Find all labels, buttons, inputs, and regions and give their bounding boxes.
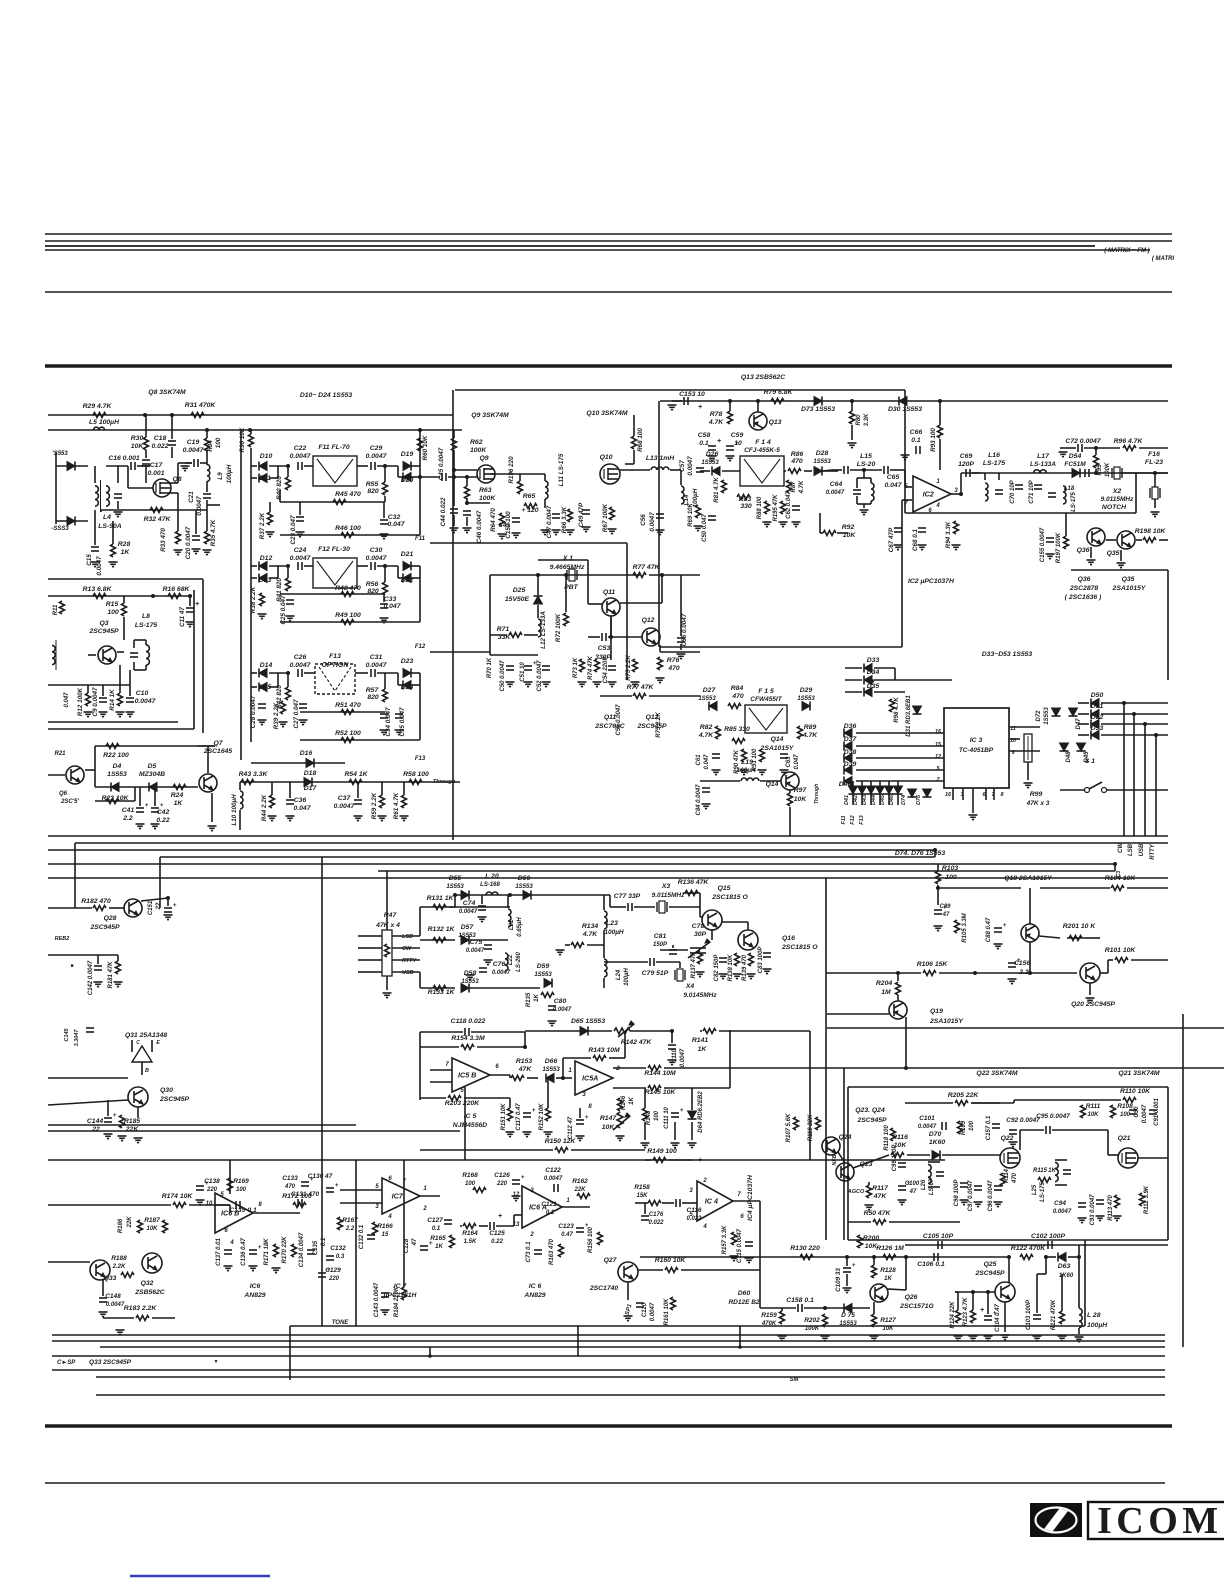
wire [760, 1307, 796, 1309]
capacitor C33 [380, 604, 388, 608]
wire [269, 672, 290, 674]
ground C115 [745, 1258, 754, 1263]
resistor R105 [955, 920, 960, 933]
svg-text:0.1: 0.1 [699, 440, 709, 447]
junction [904, 1255, 908, 1259]
svg-text:L8: L8 [142, 613, 150, 620]
svg-text:F11: F11 [415, 536, 426, 542]
wire [680, 644, 682, 650]
capacitor C79 [650, 958, 654, 966]
wire [604, 961, 648, 963]
wire [537, 605, 539, 618]
ground C112 [576, 1136, 585, 1141]
resistor R82 [716, 726, 721, 739]
ground IC3 [969, 815, 978, 820]
resistor R16 [168, 594, 181, 599]
svg-text:4.7K: 4.7K [708, 419, 724, 426]
svg-text:2SC945P: 2SC945P [159, 1096, 190, 1103]
ground R47 [383, 993, 392, 998]
capacitor C49 [582, 510, 590, 514]
svg-text:470: 470 [731, 693, 744, 700]
capacitor C29 [371, 462, 375, 470]
svg-text:100: 100 [236, 1187, 247, 1193]
wire [680, 470, 682, 485]
transistor Q23 [836, 1163, 854, 1181]
svg-text:R200: R200 [863, 1235, 879, 1242]
svg-text:1S553: 1S553 [542, 1067, 560, 1073]
svg-text:100: 100 [945, 874, 957, 881]
wire [189, 1204, 230, 1206]
svg-text:D26: D26 [706, 451, 719, 458]
wire [622, 1067, 646, 1069]
capacitor L25 tank [1063, 1170, 1071, 1174]
wire Q12 out [660, 651, 700, 653]
bus line 2 [75, 842, 1168, 844]
svg-text:D55: D55 [449, 875, 462, 882]
wire [250, 430, 252, 434]
svg-text:16: 16 [945, 792, 952, 798]
svg-text:+: + [585, 1115, 589, 1121]
svg-text:R72 100K: R72 100K [555, 613, 562, 642]
svg-text:IC5 B: IC5 B [458, 1071, 476, 1080]
wire [961, 472, 980, 474]
wire [861, 794, 863, 805]
resistor R68 [632, 436, 637, 449]
resistor R186 [138, 1220, 143, 1233]
top rule 5 [45, 291, 1172, 293]
svg-text:470: 470 [284, 1184, 296, 1190]
ground R137 [696, 972, 705, 977]
svg-text:C128: C128 [404, 1238, 410, 1253]
wire RTTY tap [392, 959, 420, 961]
wire [993, 788, 995, 800]
op-amp IC6A [522, 1186, 562, 1228]
capacitor C20 [192, 536, 200, 540]
wire [287, 566, 289, 578]
svg-text:2SC1740: 2SC1740 [589, 1285, 619, 1292]
wire [102, 1280, 104, 1296]
wire [420, 1046, 459, 1048]
resistor R114 [1001, 1173, 1006, 1186]
svg-text:D23: D23 [401, 658, 414, 665]
junction [660, 573, 664, 577]
svg-text:+: + [195, 601, 199, 608]
capacitor C65 [884, 466, 888, 474]
ground C23 [296, 532, 305, 537]
svg-text:1K: 1K [121, 549, 131, 556]
resistor R170 [292, 1244, 297, 1257]
resistor R92 [823, 531, 836, 536]
svg-text:C55 0.0047: C55 0.0047 [616, 704, 622, 736]
ground C110 [668, 1060, 677, 1065]
capacitor C136 [249, 1245, 262, 1254]
svg-text:R204: R204 [876, 980, 892, 987]
svg-text:LS-90A: LS-90A [98, 523, 122, 530]
svg-text:C176: C176 [649, 1212, 664, 1218]
wire [603, 978, 605, 988]
resistor R201 [1069, 936, 1082, 941]
svg-text:15K: 15K [636, 1193, 648, 1199]
svg-text:820: 820 [367, 488, 379, 495]
wire [141, 898, 168, 901]
wire [509, 1098, 511, 1108]
wire to Q19 base [827, 1013, 889, 1015]
svg-text:100µH: 100µH [226, 464, 233, 483]
svg-text:Q12: Q12 [642, 617, 655, 624]
wire right edge vertical [1182, 1014, 1184, 1347]
svg-text:0.0047: 0.0047 [106, 1302, 125, 1308]
resistor R139 [749, 953, 754, 966]
svg-text:R80: R80 [856, 414, 862, 426]
svg-text:LS-175: LS-175 [1040, 1182, 1046, 1202]
ground C148 [99, 1312, 108, 1317]
wire [509, 1075, 511, 1078]
svg-text:Q11: Q11 [603, 589, 616, 596]
filter F16 FL-23 [1150, 487, 1160, 499]
svg-text:15: 15 [935, 742, 942, 748]
svg-text:R39 2.2K: R39 2.2K [273, 702, 280, 729]
wire [819, 513, 821, 533]
wire [610, 616, 612, 660]
svg-text:C84 0.0047: C84 0.0047 [696, 784, 702, 816]
svg-text:R150 12K: R150 12K [545, 1138, 577, 1145]
svg-text:R60 10K: R60 10K [422, 435, 429, 460]
wire [897, 973, 899, 981]
resistor R171 [274, 1244, 279, 1257]
wire Q18 emitter down [1029, 942, 1031, 973]
svg-text:+: + [1003, 923, 1007, 929]
diode D37 [844, 742, 852, 751]
svg-text:R57: R57 [366, 687, 380, 694]
resistor R200 [858, 1235, 863, 1248]
svg-text:C37: C37 [338, 795, 352, 802]
wire [1061, 1274, 1063, 1311]
svg-text:R124 22K: R124 22K [950, 1301, 956, 1329]
diode D74 [908, 789, 917, 797]
trimmer C78 [688, 939, 710, 958]
svg-text:0.0047: 0.0047 [135, 698, 157, 705]
diode D11 [259, 474, 267, 483]
ICOM logo mark [1030, 1503, 1082, 1537]
wire X1 row [490, 574, 640, 576]
resistor R95 [1094, 455, 1099, 468]
svg-text:C74: C74 [463, 900, 476, 907]
wire [477, 1046, 525, 1048]
ground C19 [181, 466, 190, 471]
wire bus drop b [159, 857, 161, 908]
wire [460, 1225, 462, 1227]
svg-text:0.0047: 0.0047 [1053, 1209, 1072, 1215]
capacitor C132 [326, 1256, 334, 1260]
wire [1078, 734, 1089, 736]
svg-text:4.7K: 4.7K [698, 732, 714, 739]
wire [888, 794, 890, 805]
wire [972, 1292, 974, 1310]
svg-text:Q8 3SK74M: Q8 3SK74M [148, 389, 186, 396]
wire [314, 762, 345, 764]
wire [890, 469, 905, 471]
svg-text:0.3: 0.3 [336, 1254, 345, 1260]
svg-text:0.0047: 0.0047 [918, 1124, 937, 1130]
svg-text:X3: X3 [661, 883, 671, 890]
diode D12 [259, 562, 267, 571]
wire [397, 566, 399, 578]
wire left edge vertical [55, 452, 57, 524]
audio box top [356, 1159, 945, 1161]
op-amp IC2 µPC1037H [913, 476, 951, 512]
diode D4 [111, 783, 119, 792]
svg-text:R31 470K: R31 470K [185, 402, 217, 409]
capacitor C101 [942, 1122, 946, 1130]
diode D14 [259, 669, 267, 678]
capacitor C17 [142, 460, 150, 464]
ground C83 [763, 969, 772, 974]
wire [251, 465, 257, 467]
svg-text:R160 10K: R160 10K [655, 1257, 687, 1264]
wire [269, 465, 290, 467]
svg-text:10: 10 [206, 1201, 213, 1207]
ground R73 [578, 682, 587, 687]
capacitor C134 [307, 1250, 315, 1254]
wire [340, 1189, 382, 1191]
svg-text:LS-260: LS-260 [516, 952, 522, 972]
bottom rail 1 [52, 1334, 1165, 1336]
svg-text:D50: D50 [1091, 692, 1104, 699]
resistor network R47 47Kx4 [382, 930, 392, 976]
svg-text:C►SP: C►SP [57, 1360, 76, 1366]
svg-text:Q25: Q25 [984, 1261, 997, 1268]
audio box right [1084, 1240, 1086, 1326]
resistor R141b [703, 1029, 716, 1034]
svg-text:47K x 3: 47K x 3 [1026, 800, 1050, 807]
svg-text:R188: R188 [111, 1255, 127, 1262]
transistor Q31 [132, 1040, 152, 1075]
ground R202 [821, 1336, 830, 1341]
svg-text:R187: R187 [144, 1217, 160, 1224]
wire [251, 577, 257, 579]
ground R76 [656, 678, 665, 683]
svg-text:Q7: Q7 [213, 740, 223, 747]
wire [139, 787, 141, 806]
svg-text:220: 220 [328, 1276, 340, 1282]
resistor R79 [771, 399, 784, 404]
svg-text:4: 4 [935, 503, 940, 509]
ground C15 [91, 562, 100, 567]
capacitor C112 [576, 1115, 589, 1124]
ground C52 [542, 682, 551, 687]
svg-text:C33: C33 [384, 596, 397, 603]
capacitor C82 [719, 958, 727, 962]
wire [856, 745, 944, 747]
svg-text:+: + [498, 1213, 502, 1220]
wire [729, 1030, 731, 1088]
ground C88 [994, 944, 1003, 949]
capacitor C67 [894, 528, 902, 532]
capacitor C88 [994, 923, 1007, 932]
capacitor C68 [918, 528, 926, 532]
svg-text:820: 820 [367, 694, 379, 701]
ground R80 [848, 443, 857, 448]
wire [608, 636, 642, 638]
capacitor across L4 [114, 494, 122, 498]
filter F14 CFJ-455K-5 [740, 456, 784, 486]
svg-text:R70 1K: R70 1K [487, 657, 493, 678]
wire USB line [1144, 724, 1146, 836]
capacitor C63 [780, 754, 788, 758]
svg-text:D33~D53 1S553: D33~D53 1S553 [982, 651, 1033, 658]
ground R64 [498, 534, 507, 539]
ground C144 [104, 1134, 113, 1139]
inductor L14 [681, 486, 684, 504]
resistor R98 [890, 699, 895, 712]
ground F16 [1151, 512, 1160, 517]
svg-text:100: 100 [969, 1120, 975, 1131]
svg-text:C46 0.0047: C46 0.0047 [476, 510, 483, 543]
wire [934, 850, 936, 857]
wire [870, 478, 872, 483]
svg-text:R99: R99 [1030, 791, 1043, 798]
resistor R195 [781, 501, 786, 514]
diode D42 [858, 786, 867, 794]
wire vertical feed c2 [843, 1068, 845, 1240]
op-amp IC4 µPC1037H [697, 1181, 733, 1221]
resistor R203 [448, 1096, 461, 1101]
capacitor C130 b [326, 1183, 339, 1192]
wire [357, 465, 368, 467]
wire [454, 895, 456, 907]
svg-text:D21: D21 [401, 551, 414, 558]
wire [154, 787, 156, 806]
capacitor C16 [131, 462, 135, 470]
ground C32 [380, 534, 389, 539]
wire [141, 465, 150, 467]
junction [418, 428, 422, 432]
svg-text:C24: C24 [294, 547, 307, 554]
resistor R14 [118, 693, 123, 706]
resistor R151 [508, 1108, 513, 1121]
svg-text:R149 100: R149 100 [647, 1148, 677, 1155]
svg-text:R158: R158 [634, 1184, 650, 1191]
wire [987, 1292, 989, 1314]
capacitor C106 [934, 1253, 938, 1261]
capacitor C91 [1149, 1110, 1157, 1114]
svg-text:C65: C65 [887, 474, 900, 481]
capacitor C35 [395, 714, 403, 718]
wire [471, 1031, 525, 1033]
capacitor C31 [371, 669, 375, 677]
ground C84 [702, 804, 711, 809]
wire top rail [48, 414, 453, 416]
svg-text:C50 0.0047: C50 0.0047 [500, 660, 506, 692]
resistor R83 [737, 495, 750, 500]
ground R157 [730, 1256, 739, 1261]
svg-text:R197 100K: R197 100K [1056, 532, 1062, 563]
wire [129, 670, 131, 696]
svg-text:D76: D76 [916, 794, 922, 805]
ground C111 [671, 1143, 680, 1148]
top thick rule [45, 364, 1172, 368]
ground C66 [901, 455, 910, 460]
wire Q8 gate [128, 487, 153, 489]
ground C100 [898, 1200, 907, 1205]
wire long rail c [48, 1159, 356, 1161]
svg-text:C118 0.022: C118 0.022 [451, 1018, 486, 1025]
junction [1153, 471, 1157, 475]
resistor R101 [1115, 958, 1128, 963]
resistor R57 [383, 689, 388, 702]
resistor R197 [1064, 536, 1069, 549]
wire [411, 476, 420, 478]
capacitor C137 [224, 1250, 232, 1254]
svg-text:L10 100µH: L10 100µH [231, 794, 238, 826]
wire [145, 665, 147, 670]
wire [269, 477, 278, 479]
svg-text:LS-175: LS-175 [983, 460, 1006, 467]
svg-text:2: 2 [702, 1178, 707, 1184]
wire [178, 462, 192, 464]
svg-text:D63: D63 [1058, 1263, 1071, 1270]
ground R121 [1058, 1336, 1067, 1341]
ground C51 [524, 682, 533, 687]
capacitor C60 [708, 516, 716, 520]
svg-text:D42: D42 [853, 795, 859, 805]
svg-text:D18: D18 [304, 770, 317, 777]
wire r104 right [1127, 887, 1168, 889]
diode D20 [403, 473, 411, 482]
svg-text:( 2SC1636 ): ( 2SC1636 ) [1065, 594, 1102, 601]
svg-text:0.047: 0.047 [794, 754, 800, 770]
resistor R160 [665, 1268, 678, 1273]
junction [904, 1066, 908, 1070]
wire [239, 810, 241, 830]
svg-text:C19: C19 [187, 439, 200, 446]
wire R99 inner [1027, 736, 1029, 760]
svg-text:C70 10P: C70 10P [1010, 479, 1016, 503]
wire [719, 1030, 810, 1032]
wire [48, 907, 92, 909]
svg-text:Q21: Q21 [1118, 1135, 1131, 1142]
ground R127 [870, 1336, 879, 1341]
ground C25 [286, 616, 295, 621]
svg-text:R64 470: R64 470 [490, 508, 497, 532]
capacitor C129 [318, 1268, 331, 1277]
svg-text:C22: C22 [294, 445, 307, 452]
svg-text:0.0047: 0.0047 [290, 555, 312, 562]
wire [691, 1122, 693, 1140]
top rule 1 [45, 233, 1172, 235]
inductor L20 [486, 892, 498, 895]
svg-text:C: C [136, 1040, 140, 1046]
junction [383, 464, 387, 468]
wire [804, 470, 812, 472]
resistor R174 [173, 1203, 186, 1208]
wire [524, 1032, 526, 1047]
transistor Q36 2SC2878 [1087, 528, 1105, 546]
wire [464, 1097, 510, 1099]
svg-text:R136 47K: R136 47K [678, 879, 710, 886]
capacitor C125 [490, 1222, 494, 1230]
svg-text:IC4 µPC1037H: IC4 µPC1037H [747, 1174, 754, 1221]
diode D44 [876, 786, 885, 794]
wire notch box bottom [905, 512, 1136, 514]
resistor R107 [794, 1117, 799, 1130]
svg-text:2SC945P: 2SC945P [974, 1270, 1005, 1277]
svg-text:R88 100: R88 100 [757, 496, 763, 519]
svg-text:Q24: Q24 [839, 1134, 852, 1141]
svg-text:D65 1S553: D65 1S553 [571, 1018, 605, 1025]
svg-text:470: 470 [790, 458, 803, 465]
wire stub2 [577, 1326, 579, 1356]
